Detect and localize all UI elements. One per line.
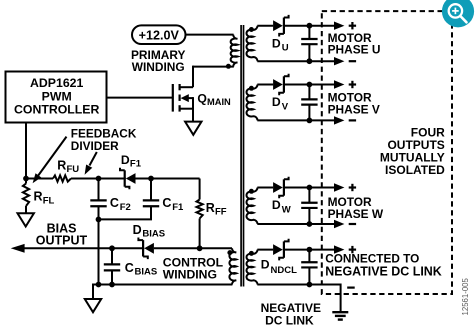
svg-text:D: D [272,95,281,109]
svg-text:ADP1621: ADP1621 [30,76,83,90]
wire diode D_NDCL to cap [284,249,309,251]
node U top [307,23,313,29]
node +12.0V supply pill [132,25,186,44]
wire NDCL bottom to earth ground [309,284,340,286]
svg-text:W: W [282,205,291,216]
wire node to R_FU [26,178,53,180]
capacitor output V [308,85,310,100]
wire ADP1621 to feedback node [25,123,27,179]
wire secondary V bottom [257,119,309,121]
svg-text:WINDING: WINDING [163,267,217,281]
transistor Q1 source stub [180,108,193,110]
node W bottom [307,221,313,227]
transistor Q1 channel bar [179,84,181,90]
transformer primary winding [231,35,238,67]
ground Q1 source [185,122,201,135]
node 4 [96,217,102,223]
plus sign NDCL [349,249,356,251]
resistor R_FL [25,179,27,184]
transformer secondary winding NDCL [247,250,258,285]
secondary NDCL phase dot [249,251,254,256]
diode D_NDCL [273,244,283,255]
svg-text:C: C [110,196,119,210]
wire secondary U top to diode [257,25,273,27]
wire diode D_V to cap [284,84,309,86]
node 2 (FB divider tap) [96,176,102,182]
wire R_FU to node2 [71,178,99,180]
node W top [307,185,313,191]
wire node5 to D_BIAS [112,247,144,249]
svg-text:OUTPUT: OUTPUT [36,234,88,248]
wire node3 to R_FF [151,178,200,180]
bias output arrow [11,244,25,253]
svg-text:D: D [121,153,130,167]
diode D_V [273,79,283,90]
ground bias rail [85,299,101,312]
svg-text:WINDING: WINDING [132,60,185,74]
wire node7 to control winding [200,247,232,249]
svg-text:12561-005: 12561-005 [461,277,470,315]
wire node2 to D_F1 [99,178,126,180]
svg-text:C: C [162,196,171,210]
wire diode D_U to cap [284,25,309,27]
wire secondary W top to diode [257,187,273,189]
svg-text:+12.0V: +12.0V [139,28,180,42]
capacitor output U [308,26,310,39]
transistor Q1 body arrow [181,94,189,102]
svg-text:F1: F1 [130,159,142,170]
minus sign W [349,223,356,225]
zoom button (teal magnifier) [442,0,474,27]
svg-text:FF: FF [215,207,227,218]
svg-text:CONNECTED TO: CONNECTED TO [325,251,419,265]
wire bias output [23,247,112,249]
wire D_F1 to node3 [136,178,152,180]
resistor R_FU [53,175,71,181]
svg-text:R: R [34,190,43,204]
node 8 (C_BIAS bottom) [109,282,115,288]
node NDCL bottom [307,282,313,288]
node V bottom [307,118,313,124]
resistor R_FF [199,179,201,200]
transformer secondary winding V [247,85,258,121]
node NDCL top [307,247,313,253]
svg-text:MAIN: MAIN [207,97,231,107]
transformer secondary winding W [247,188,258,224]
control winding phase dot [227,250,232,255]
node 7 (R_FF bottom) [197,245,203,251]
capacitor C_F1 [150,179,152,201]
svg-text:NEGATIVE DC LINK: NEGATIVE DC LINK [325,265,442,279]
minus sign NDCL [347,287,355,289]
wire secondary U bottom [257,60,309,62]
wire Q1 source to ground [192,97,194,122]
svg-text:D: D [272,198,281,212]
transistor Q1 drain stub [180,86,193,88]
diode D_U [273,20,283,31]
capacitor C_BIAS [111,248,113,264]
svg-text:NDCL: NDCL [271,265,298,276]
svg-text:PWM: PWM [42,89,72,103]
pointer arrow to divider tap [90,152,97,166]
capacitor output W [308,188,310,203]
svg-text:BIAS: BIAS [135,266,158,277]
svg-text:V: V [282,102,289,113]
capacitor C_F2 [98,179,100,201]
svg-text:F1: F1 [172,202,184,213]
output arrow V- [309,119,335,121]
wire rail elbow to ground [92,284,94,300]
svg-text:D: D [133,223,142,237]
svg-text:Q: Q [197,91,206,105]
wire primary bottom to Q_MAIN drain [193,66,234,68]
svg-text:DC LINK: DC LINK [265,313,314,327]
transformer control winding [229,248,236,284]
wire secondary W bottom [257,223,309,225]
pointer arrow to feedback node [38,137,67,177]
minus sign V [349,119,356,121]
plus sign V [349,83,356,85]
svg-text:C: C [125,261,134,275]
diode D_F1 [126,173,136,184]
primary phase dot [226,64,231,69]
output arrow W+ [309,187,335,189]
wire C_F1 bottom to node4 [99,218,153,220]
diode D_BIAS [144,243,154,254]
minus sign U [349,60,356,62]
node U bottom [307,58,313,64]
svg-text:ISOLATED: ISOLATED [385,163,445,177]
wire D_BIAS to node7 [154,247,200,249]
svg-text:R: R [206,201,215,215]
svg-text:FU: FU [67,164,80,175]
node 3 [148,176,154,182]
capacitor output NDCL [308,250,310,263]
wire ADP1621 to gate [107,97,173,99]
svg-text:CONTROLLER: CONTROLLER [14,103,100,117]
ground R_FL [18,213,34,226]
svg-text:U: U [282,43,289,54]
ADP1621 box [6,72,107,123]
transformer secondary winding U [247,26,258,62]
svg-text:D: D [261,257,270,271]
wire diode D_W to cap [284,187,309,189]
svg-text:DIVIDER: DIVIDER [71,139,119,153]
svg-text:PHASE W: PHASE W [328,207,384,221]
svg-text:F2: F2 [120,202,131,213]
dashed outputs box [322,11,452,294]
svg-text:PHASE U: PHASE U [328,42,381,56]
output arrow V+ [309,84,335,86]
secondary W phase dot [249,189,254,194]
wire pill to primary winding [186,34,234,36]
node 5 (bias/C_BIAS) [109,245,115,251]
wire secondary NDCL bottom [257,284,309,286]
svg-text:R: R [57,158,66,172]
plus sign U [349,25,356,27]
transformer core [240,25,242,287]
svg-text:FL: FL [43,195,55,206]
output arrow NDCL+ [309,249,335,251]
svg-text:BIAS: BIAS [142,229,165,240]
wire secondary V top to diode [257,84,273,86]
node 6 (CF bottom / rail) [96,282,102,288]
secondary V phase dot [249,86,254,91]
diode D_W [273,182,283,193]
svg-text:D: D [272,36,281,50]
svg-text:PHASE V: PHASE V [328,103,380,117]
ground negative DC link (earth) [332,311,348,313]
wire secondary NDCL top to diode [257,249,273,251]
node V top [307,82,313,88]
wire node4 down to ground rail [98,219,100,284]
ground rail wire [93,284,232,286]
output arrow U+ [309,25,335,27]
plus sign W [349,186,356,188]
node feedback junction [23,176,29,182]
secondary U phase dot [249,27,254,32]
output arrow W- [309,223,335,225]
output arrow U- [309,60,335,62]
transistor Q1 gate bar [172,84,174,112]
